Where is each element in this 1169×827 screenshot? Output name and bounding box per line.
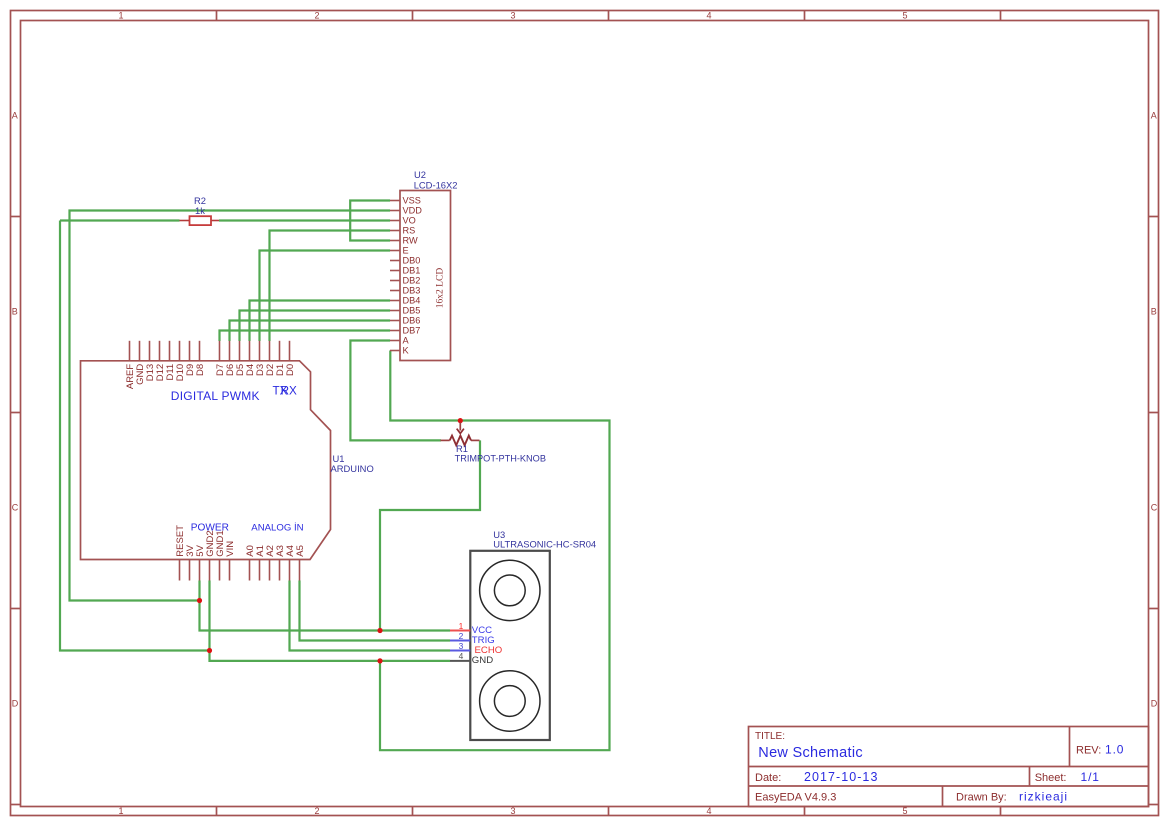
svg-text:C: C — [1151, 503, 1158, 513]
svg-text:2: 2 — [315, 10, 320, 20]
svg-text:RX: RX — [281, 384, 297, 397]
svg-text:D: D — [12, 699, 19, 709]
svg-text:POWER: POWER — [191, 523, 229, 534]
svg-text:TITLE:: TITLE: — [755, 731, 785, 742]
svg-text:DB6: DB6 — [403, 315, 421, 325]
svg-text:TRIG: TRIG — [472, 635, 495, 646]
svg-text:K: K — [403, 345, 410, 355]
svg-text:R1: R1 — [456, 443, 468, 454]
svg-text:A5: A5 — [295, 545, 306, 557]
svg-text:VSS: VSS — [403, 195, 421, 205]
svg-text:1k: 1k — [195, 205, 205, 216]
svg-text:D8: D8 — [195, 364, 206, 376]
svg-text:1.0: 1.0 — [1105, 742, 1124, 756]
svg-text:DB1: DB1 — [403, 265, 421, 275]
svg-text:A: A — [403, 335, 410, 345]
svg-text:1: 1 — [459, 621, 464, 631]
svg-text:5: 5 — [903, 10, 908, 20]
svg-text:1: 1 — [119, 806, 124, 816]
svg-text:ULTRASONIC-HC-SR04: ULTRASONIC-HC-SR04 — [493, 538, 596, 549]
svg-text:3: 3 — [511, 806, 516, 816]
svg-text:ARDUINO: ARDUINO — [331, 463, 374, 474]
svg-text:4: 4 — [459, 651, 464, 661]
svg-text:LCD-16X2: LCD-16X2 — [414, 179, 458, 190]
svg-text:TRIMPOT-PTH-KNOB: TRIMPOT-PTH-KNOB — [455, 453, 546, 463]
svg-text:New Schematic: New Schematic — [758, 745, 863, 761]
svg-text:3: 3 — [459, 641, 464, 651]
svg-text:REV:: REV: — [1076, 744, 1101, 756]
svg-text:D0: D0 — [285, 364, 296, 376]
svg-text:RW: RW — [403, 235, 418, 245]
svg-text:C: C — [12, 503, 19, 513]
svg-text:2: 2 — [459, 631, 464, 641]
svg-text:VO: VO — [403, 215, 416, 225]
svg-text:DB5: DB5 — [403, 305, 421, 315]
svg-text:4: 4 — [707, 10, 712, 20]
svg-text:GND: GND — [472, 655, 493, 666]
svg-text:B: B — [1151, 307, 1157, 317]
svg-text:DB4: DB4 — [403, 295, 421, 305]
svg-text:rizkieaji: rizkieaji — [1019, 790, 1068, 804]
svg-text:Sheet:: Sheet: — [1035, 772, 1067, 784]
svg-text:RS: RS — [403, 225, 416, 235]
svg-text:Date:: Date: — [755, 772, 781, 784]
svg-text:DB2: DB2 — [403, 275, 421, 285]
svg-text:16x2 LCD: 16x2 LCD — [435, 268, 445, 309]
svg-text:A: A — [12, 111, 18, 121]
svg-text:ANALOG İN: ANALOG İN — [251, 523, 303, 534]
svg-text:Drawn By:: Drawn By: — [956, 792, 1007, 804]
svg-text:2017-10-13: 2017-10-13 — [804, 770, 878, 784]
svg-text:4: 4 — [707, 806, 712, 816]
svg-text:5: 5 — [903, 806, 908, 816]
svg-text:VIN: VIN — [225, 541, 236, 557]
svg-text:E: E — [403, 245, 409, 255]
svg-text:DB3: DB3 — [403, 285, 421, 295]
svg-text:EasyEDA V4.9.3: EasyEDA V4.9.3 — [755, 792, 836, 804]
svg-text:VDD: VDD — [403, 205, 423, 215]
svg-text:D: D — [1151, 699, 1158, 709]
svg-text:DIGITAL PWMK: DIGITAL PWMK — [171, 389, 260, 403]
svg-text:1: 1 — [119, 10, 124, 20]
svg-text:DB7: DB7 — [403, 325, 421, 335]
svg-text:2: 2 — [315, 806, 320, 816]
svg-text:3: 3 — [511, 10, 516, 20]
svg-text:1/1: 1/1 — [1081, 770, 1100, 784]
svg-text:A: A — [1151, 111, 1157, 121]
svg-text:DB0: DB0 — [403, 255, 421, 265]
svg-text:B: B — [12, 307, 18, 317]
